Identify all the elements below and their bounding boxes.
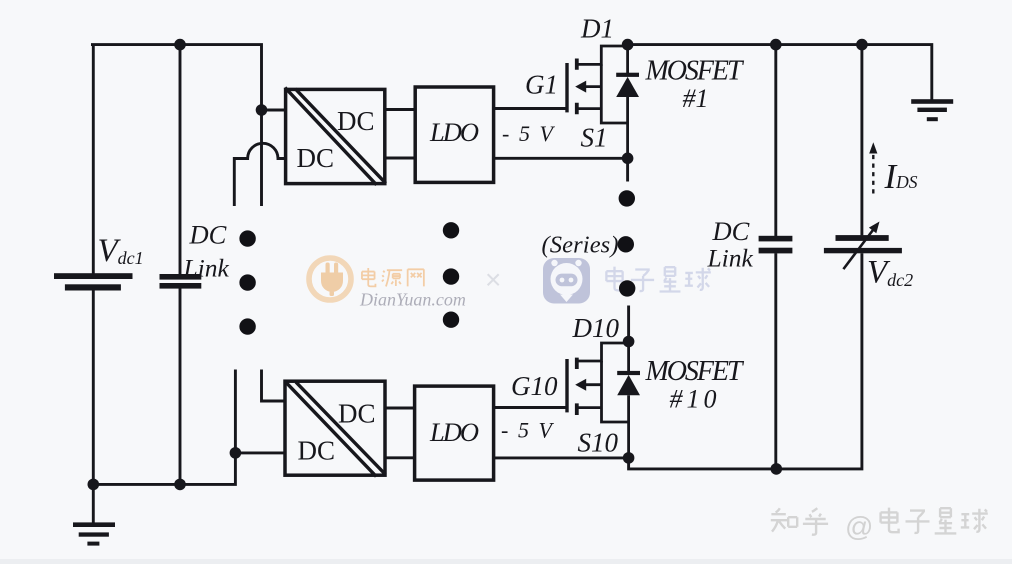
- wire S1 source lead: [494, 157, 628, 160]
- svg-text:DC: DC: [298, 436, 336, 466]
- svg-text:G10: G10: [511, 371, 558, 401]
- series ellipsis dots right: [618, 190, 636, 296]
- wire DCDC2 minus input: [235, 451, 285, 454]
- series ellipsis dots left: [239, 230, 255, 334]
- wire top rail right: [628, 45, 932, 100]
- converter DCDC1 box: [285, 88, 386, 185]
- svg-text:MOSFET: MOSFET: [645, 356, 745, 387]
- transistor M10: [567, 343, 629, 458]
- wire series chain below S1: [626, 158, 629, 181]
- wire bottom right rail: [629, 253, 862, 469]
- regulator LDO1 box: [415, 87, 493, 182]
- battery Vdc1: [54, 273, 133, 290]
- wire DCDC2-LDO2 top: [385, 407, 415, 410]
- wire DCDC2-LDO2 bottom: [385, 456, 415, 459]
- ground right: [911, 99, 953, 121]
- wire Vdc1 bottom to bottom rail: [92, 290, 95, 484]
- watermark zhihu credit: [771, 508, 988, 535]
- svg-text:S10: S10: [578, 428, 619, 458]
- wire DCDC1-LDO1 top: [385, 108, 415, 111]
- wire S10 source lead: [494, 456, 629, 459]
- svg-text:Link: Link: [707, 244, 754, 273]
- wire DC-link-right bottom: [774, 253, 777, 469]
- wire DCDC2 plus input: [262, 370, 286, 402]
- wire ground-left stem: [92, 484, 95, 523]
- capacitor DC-link-right: [759, 236, 793, 254]
- current arrow IDS: [869, 142, 877, 193]
- svg-text:DC: DC: [297, 143, 335, 173]
- svg-text:Link: Link: [183, 254, 230, 283]
- wire top rail left + plus-bus down: [91, 45, 262, 206]
- wire series chain above D10: [627, 306, 630, 342]
- svg-text:D10: D10: [572, 313, 620, 343]
- ground left: [73, 522, 115, 545]
- svg-text:@: @: [845, 511, 873, 542]
- wire DCDC1 minus input with hop: [234, 143, 285, 206]
- watermark DianYuan logo: [309, 258, 351, 300]
- diode body D10: [617, 342, 640, 423]
- converter DCDC2 box: [285, 381, 386, 477]
- series ellipsis dots middle: [443, 222, 459, 328]
- wire bottom rail + minus-bus up: [93, 370, 236, 485]
- wire DCDC1-LDO1 bottom: [385, 157, 415, 160]
- svg-text:DC: DC: [189, 220, 227, 250]
- capacitor DC-link-left: [160, 274, 202, 289]
- wire G10 gate lead: [494, 406, 567, 409]
- svg-text:S1: S1: [581, 123, 608, 153]
- svg-text:DC: DC: [338, 399, 376, 429]
- transistor M1: [567, 46, 628, 158]
- svg-text:DianYuan.com: DianYuan.com: [359, 290, 466, 310]
- regulator LDO2 box: [415, 386, 494, 480]
- svg-text:×: ×: [485, 264, 501, 295]
- watermark DianYuan text: [362, 268, 424, 286]
- svg-text:MOSFET: MOSFET: [645, 56, 745, 87]
- svg-text:G1: G1: [525, 70, 558, 100]
- wire DCDC1 plus input: [262, 109, 286, 112]
- wire DC-link-left vertical bottom: [179, 288, 182, 484]
- svg-text:DC: DC: [712, 216, 750, 246]
- diode body D1: [616, 45, 639, 123]
- source Vdc2 variable: [824, 222, 902, 270]
- wire Vdc2 top: [860, 45, 863, 236]
- svg-text:LDO: LDO: [429, 417, 479, 447]
- svg-text:#10: #10: [670, 385, 717, 414]
- svg-text:DC: DC: [337, 106, 375, 136]
- watermark dianzixingqiu text: [606, 267, 710, 292]
- svg-text:D1: D1: [580, 14, 614, 44]
- wire DC-link-left vertical top: [179, 45, 182, 275]
- watermark dianzixingqiu logo: [543, 258, 590, 304]
- svg-text:(Series): (Series): [542, 232, 619, 259]
- svg-text:LDO: LDO: [429, 117, 479, 147]
- svg-text:#1: #1: [683, 84, 709, 113]
- wire G1 gate lead: [494, 107, 567, 110]
- wire DC-link-right top: [774, 45, 777, 236]
